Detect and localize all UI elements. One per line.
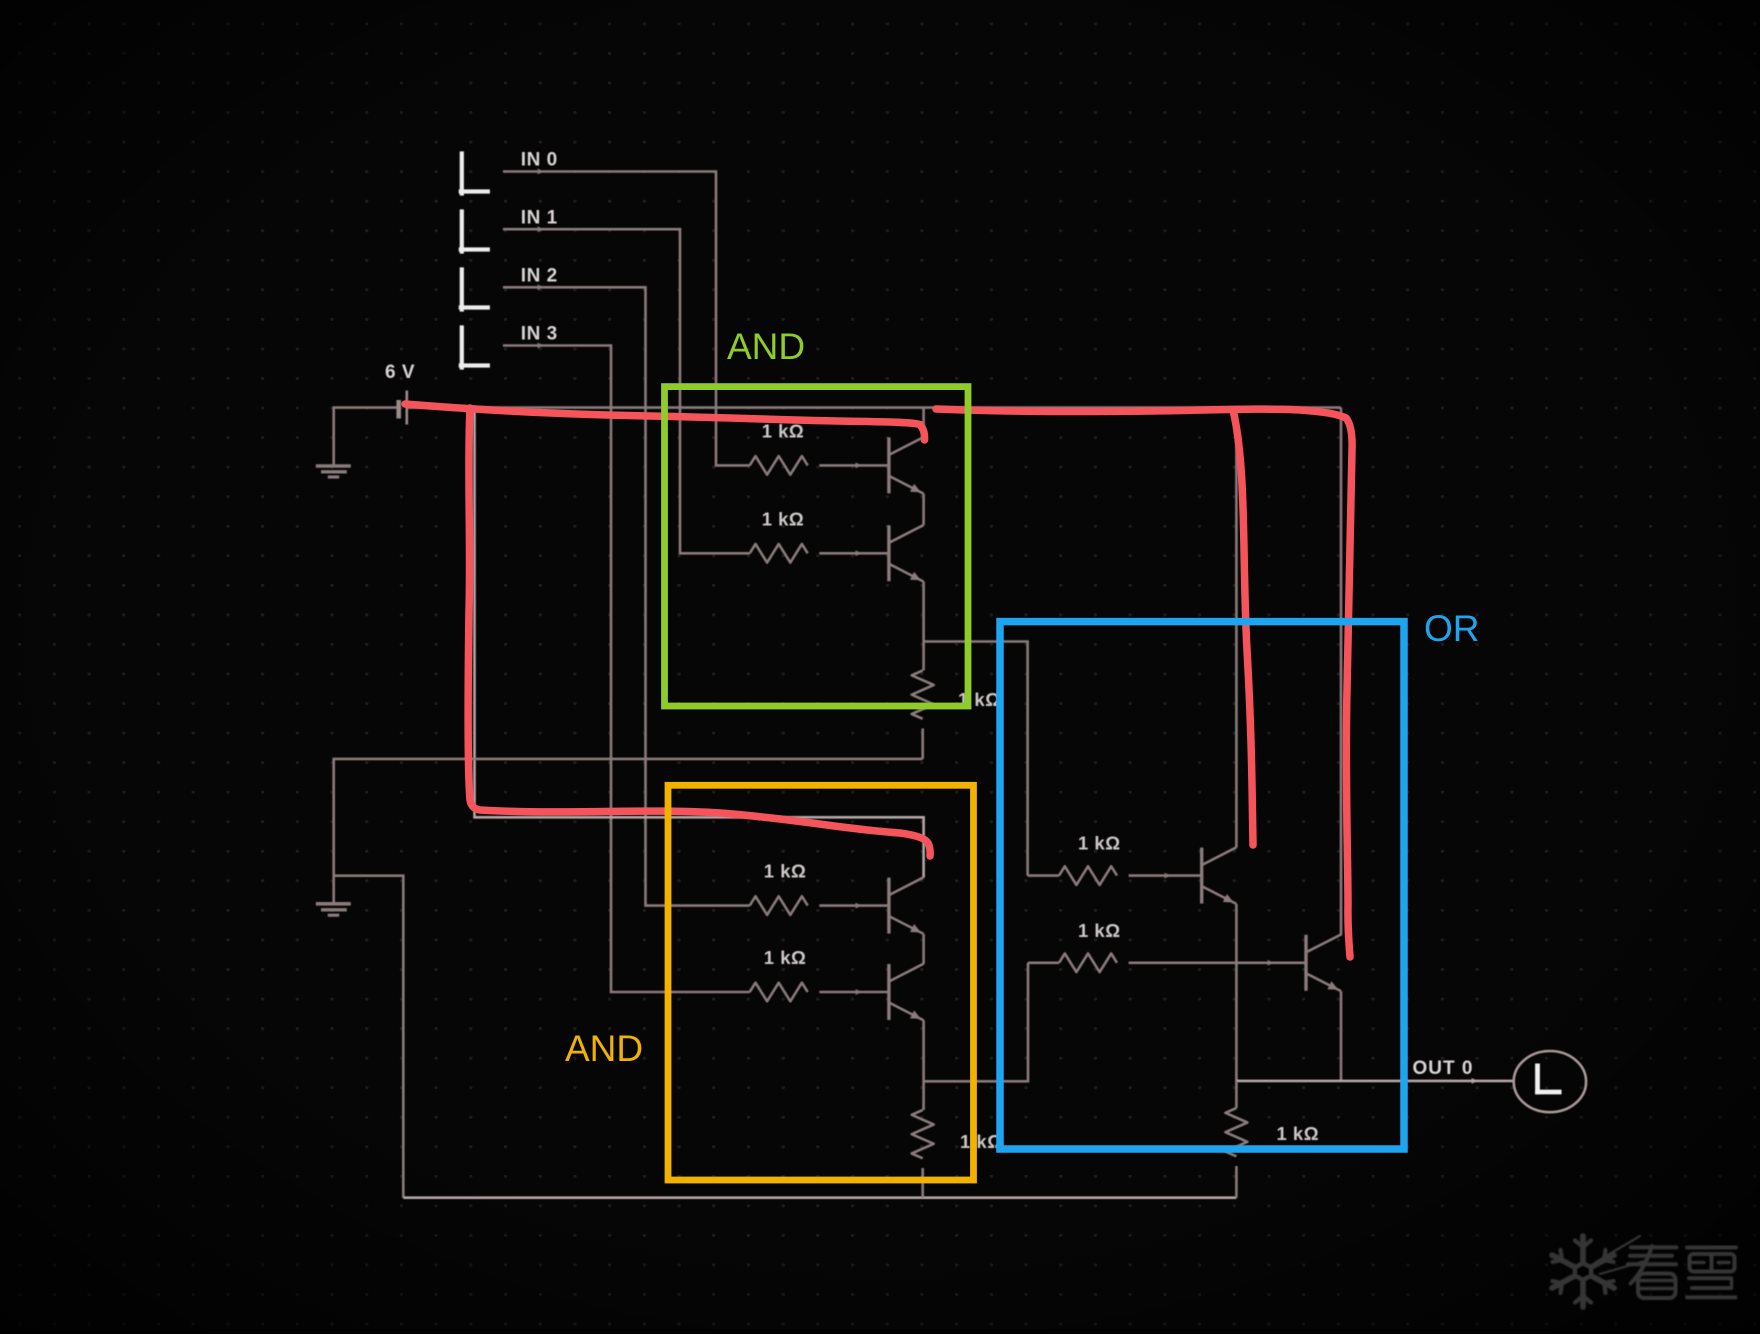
wire R9 bottom to ground bus	[921, 1168, 924, 1198]
transistor Q6	[1304, 935, 1307, 991]
bottom edge strip	[0, 1329, 1760, 1334]
blue OR box	[1000, 622, 1404, 1149]
wire R7 to Q6 base	[1129, 961, 1305, 964]
svg-text:6 V: 6 V	[385, 362, 415, 383]
transistor Q4	[887, 964, 890, 1020]
wire ground to bottom bus	[334, 876, 404, 1198]
svg-text:1 kΩ: 1 kΩ	[764, 861, 807, 882]
wire VCC to Q5 collector	[1235, 408, 1238, 848]
node A wire to OR input 1	[924, 642, 1028, 876]
wire VCC drop to bottom AND collector	[475, 408, 924, 878]
red annotation: VCC trace right section + drop to Q6 collector	[936, 409, 1352, 957]
switch IN0	[460, 154, 464, 194]
transistor Q5	[1200, 848, 1203, 904]
wire R2 to Q2 base	[819, 552, 888, 555]
wire battery negative to ground	[334, 408, 397, 465]
switch IN2	[460, 270, 464, 310]
wire IN3 to R4	[503, 346, 750, 993]
svg-text:1 kΩ: 1 kΩ	[1078, 833, 1121, 854]
wire Q2 emitter to node A / R5	[922, 582, 925, 671]
switch IN1	[460, 212, 464, 252]
resistor R3 1k	[750, 896, 808, 915]
resistor R7 1k	[1059, 954, 1117, 973]
wire Q6 emitter down to output node	[1340, 991, 1343, 1081]
wire R6 left lead	[1028, 874, 1059, 877]
switch IN3	[460, 328, 464, 368]
lamp OUT0 indicator	[1514, 1051, 1586, 1112]
wire R3 to Q3 base	[819, 904, 888, 907]
red annotation: drop to Q5 collector	[1233, 410, 1253, 845]
svg-text:AND: AND	[565, 1028, 643, 1069]
wire VCC to Q1 collector	[922, 408, 925, 438]
wire Q4 emitter to node B / R9	[922, 1020, 925, 1110]
ground G1	[316, 464, 351, 468]
wire Q1 emitter to Q2 collector	[922, 494, 925, 525]
svg-text:IN 3: IN 3	[521, 323, 558, 344]
resistor R4 1k	[750, 983, 808, 1002]
wire Q5 emitter down to output node	[1235, 904, 1238, 1081]
wire R4 to Q4 base	[819, 991, 888, 994]
battery V1 6V	[396, 400, 401, 419]
transistor Q3	[887, 878, 890, 934]
svg-text:IN 1: IN 1	[521, 207, 558, 228]
red annotation: VCC trace from battery to hook	[405, 404, 925, 440]
svg-text:OUT 0: OUT 0	[1413, 1058, 1474, 1079]
resistor R2 1k	[750, 544, 808, 563]
resistor R6 1k	[1059, 866, 1117, 885]
green AND box	[665, 387, 969, 706]
wire IN0 to R1	[503, 172, 750, 466]
wire IN2 to R3	[503, 287, 750, 905]
wire VCC to Q6 collector	[1340, 408, 1343, 936]
transistor Q2	[887, 525, 890, 581]
transistor Q1	[887, 437, 890, 493]
wire R1 to Q1 base	[819, 464, 888, 467]
red annotation: branch to bottom AND collector	[468, 408, 930, 856]
wire IN1 to R2	[503, 229, 750, 553]
svg-text:AND: AND	[727, 326, 805, 367]
watermark text kan	[1628, 1246, 1677, 1298]
wire R6 to Q5 base	[1129, 874, 1201, 877]
wire ground link horizontal	[334, 759, 923, 903]
resistor R8 pulldown 1k	[1235, 1081, 1238, 1108]
wire Q3 emitter to Q4 collector	[922, 934, 925, 964]
svg-text:1 kΩ: 1 kΩ	[1078, 920, 1121, 941]
wire R7 left lead	[1028, 961, 1059, 964]
wire output node to lamp	[1236, 1080, 1513, 1083]
svg-text:1 kΩ: 1 kΩ	[764, 947, 807, 968]
watermark snowflake logo	[1552, 1236, 1736, 1307]
wire ground bus bottom	[403, 1196, 1236, 1199]
svg-text:IN 2: IN 2	[521, 265, 558, 286]
svg-text:1 kΩ: 1 kΩ	[1277, 1123, 1320, 1144]
svg-text:1 kΩ: 1 kΩ	[960, 1131, 1003, 1152]
svg-text:IN 0: IN 0	[521, 149, 558, 170]
node B wire to OR input 2	[924, 963, 1028, 1082]
resistor R5 pulldown 1k	[912, 671, 934, 719]
resistor R1 1k	[750, 456, 808, 475]
wire VCC rail	[408, 406, 1341, 409]
yellow AND box	[668, 785, 974, 1180]
watermark text xue	[1687, 1248, 1736, 1298]
ground G2	[316, 902, 351, 906]
resistor R9 pulldown 1k	[912, 1110, 934, 1158]
svg-text:1 kΩ: 1 kΩ	[762, 508, 805, 529]
svg-text:OR: OR	[1424, 608, 1480, 649]
wire R5 bottom to ground link	[921, 729, 924, 759]
